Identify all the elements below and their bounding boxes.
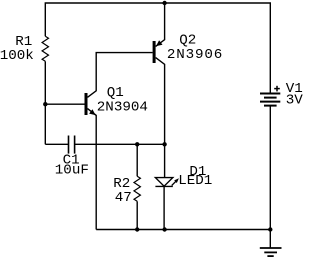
svg-text:47: 47 [115,190,132,206]
svg-text:LED1: LED1 [178,173,212,189]
svg-text:Q1: Q1 [107,85,124,101]
svg-text:3V: 3V [286,93,304,109]
svg-text:2N3906: 2N3906 [167,47,222,63]
svg-text:10uF: 10uF [55,162,89,178]
svg-text:100k: 100k [0,48,34,64]
svg-text:2N3904: 2N3904 [97,100,148,116]
